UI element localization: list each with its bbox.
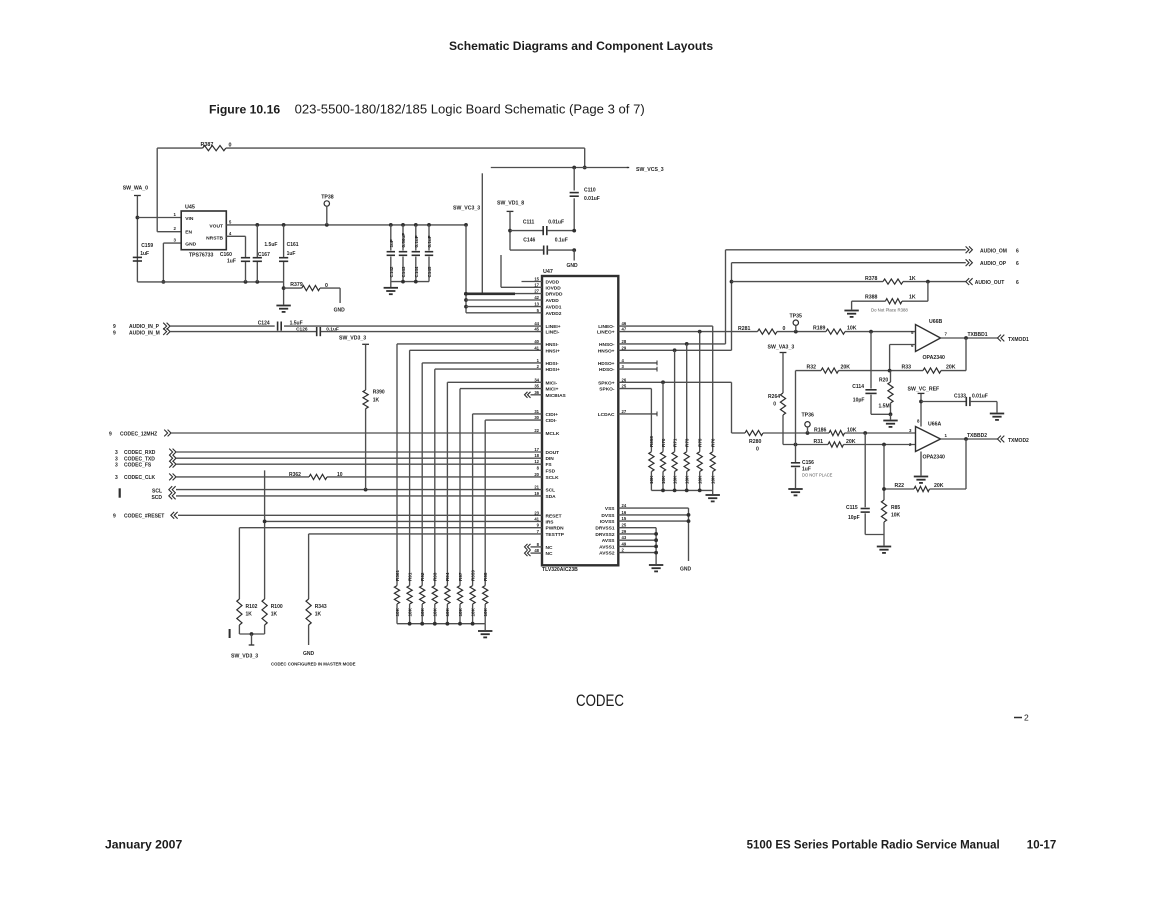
resistor R70 10K pulldown bbox=[660, 438, 665, 490]
svg-text:C146: C146 bbox=[523, 238, 535, 244]
test point TP38 bbox=[321, 195, 334, 225]
wire regulator ground rail bbox=[137, 280, 283, 284]
svg-text:22: 22 bbox=[534, 428, 539, 433]
ground below C156 bbox=[788, 489, 802, 495]
resistor R281 bbox=[738, 326, 786, 334]
svg-text:36: 36 bbox=[534, 390, 539, 395]
wire R358 net down bbox=[650, 389, 652, 452]
svg-text:0: 0 bbox=[756, 447, 759, 453]
wire R93 net to pin bbox=[435, 369, 542, 585]
svg-text:9: 9 bbox=[113, 514, 116, 520]
wire U66A inverting input line bbox=[783, 443, 916, 447]
svg-text:0: 0 bbox=[773, 402, 776, 408]
node SW_VA3_3 bbox=[768, 344, 795, 444]
svg-text:DO NOT PLACE: DO NOT PLACE bbox=[802, 473, 833, 478]
svg-text:0.1uF: 0.1uF bbox=[427, 235, 432, 247]
svg-text:AVDD: AVDD bbox=[546, 298, 560, 304]
resistor R32 bbox=[807, 365, 851, 374]
resistor R76 10K pulldown bbox=[710, 438, 715, 490]
svg-text:10K: 10K bbox=[483, 607, 488, 616]
svg-text:10K: 10K bbox=[661, 475, 666, 484]
svg-text:47: 47 bbox=[622, 327, 627, 332]
wire IOVDD bbox=[501, 255, 542, 287]
resistor R189 bbox=[813, 325, 857, 334]
wire TESTTP pin bbox=[309, 533, 542, 535]
svg-text:OPA2340: OPA2340 bbox=[923, 355, 946, 361]
svg-text:AUDIO_IN_M: AUDIO_IN_M bbox=[129, 330, 160, 336]
capacitor C156 (do not place) bbox=[791, 460, 833, 488]
svg-text:1.5uF: 1.5uF bbox=[290, 320, 303, 326]
svg-text:R20: R20 bbox=[879, 378, 888, 384]
svg-text:C142: C142 bbox=[389, 266, 394, 277]
net AUDIO_OP to page 6 bbox=[966, 259, 1019, 267]
resistor R85 bbox=[881, 445, 900, 535]
svg-text:NRSTB: NRSTB bbox=[206, 235, 223, 241]
capacitor C144 bbox=[412, 225, 420, 282]
svg-text:Schematic Diagrams and Compone: Schematic Diagrams and Component Layouts bbox=[449, 39, 713, 53]
svg-text:C133: C133 bbox=[954, 393, 966, 399]
svg-text:10K: 10K bbox=[395, 607, 400, 616]
svg-text:R102: R102 bbox=[246, 604, 258, 610]
page mark 2 bbox=[1014, 713, 1029, 723]
capacitor C114 bbox=[852, 332, 876, 415]
svg-text:TXBBD2: TXBBD2 bbox=[967, 433, 987, 439]
svg-text:GND: GND bbox=[185, 242, 196, 248]
svg-text:CODEC_FS: CODEC_FS bbox=[124, 462, 152, 468]
svg-text:DVDD: DVDD bbox=[546, 280, 560, 286]
resistor R264 bbox=[768, 393, 786, 415]
footer left bbox=[105, 838, 182, 852]
svg-text:20K: 20K bbox=[841, 365, 851, 371]
capacitor C126 bbox=[296, 327, 339, 337]
svg-text:AVSS: AVSS bbox=[602, 538, 616, 544]
wire LINEO+ to U66B input bbox=[618, 330, 915, 334]
svg-text:10K: 10K bbox=[458, 607, 463, 616]
svg-text:R33: R33 bbox=[902, 365, 912, 371]
resistor R359 10K pulldown bbox=[470, 570, 475, 624]
svg-text:SPKO+: SPKO+ bbox=[598, 380, 615, 386]
wire HNSO- up to AUDIO_OM bbox=[618, 250, 966, 346]
resistor R362 bbox=[289, 472, 343, 480]
CODEC section title bbox=[576, 692, 624, 710]
svg-text:R379: R379 bbox=[290, 282, 303, 288]
svg-text:RESET: RESET bbox=[546, 513, 562, 519]
svg-text:C144: C144 bbox=[414, 266, 419, 277]
svg-text:1uF: 1uF bbox=[140, 251, 149, 257]
svg-text:R94: R94 bbox=[445, 572, 450, 581]
wire R73 net down bbox=[686, 344, 688, 452]
svg-text:17: 17 bbox=[534, 282, 539, 287]
resistor R98 10K pulldown bbox=[483, 572, 488, 624]
wire PWRDN pin bbox=[239, 527, 542, 529]
svg-text:48: 48 bbox=[534, 548, 539, 553]
svg-text:AVSS2: AVSS2 bbox=[599, 551, 615, 557]
svg-text:R71: R71 bbox=[672, 438, 677, 447]
svg-text:1K: 1K bbox=[315, 612, 322, 618]
ground below C133 bbox=[990, 414, 1004, 420]
net CODEC_FS from page 3 bbox=[115, 461, 542, 469]
resistor R31 bbox=[814, 439, 856, 447]
resistor R93 10K pulldown bbox=[432, 572, 437, 624]
svg-text:Do Not Place R388: Do Not Place R388 bbox=[871, 308, 908, 313]
net CODEC_CLK from page 3 with R362 bbox=[115, 474, 542, 482]
resistor R358 10K pulldown bbox=[649, 436, 654, 491]
svg-text:AUDIO_OM: AUDIO_OM bbox=[980, 248, 1007, 254]
ground below C142 bbox=[384, 282, 398, 295]
footer right bbox=[747, 840, 1057, 852]
pin 2 EN bbox=[174, 226, 177, 231]
svg-text:9: 9 bbox=[109, 431, 112, 437]
svg-text:20K: 20K bbox=[846, 439, 856, 445]
resistor R361 10K pulldown bbox=[394, 570, 399, 624]
svg-text:1uF: 1uF bbox=[227, 259, 236, 265]
svg-text:45: 45 bbox=[534, 327, 539, 332]
svg-text:SW_VCS_3: SW_VCS_3 bbox=[636, 167, 664, 173]
wire R359 net to pin bbox=[473, 414, 542, 586]
net TXBBD2 output to TXMOD2 bbox=[941, 433, 1030, 444]
net CODEC_#RESET from page 9 bbox=[113, 512, 542, 520]
svg-text:SW_VC3_3: SW_VC3_3 bbox=[453, 206, 480, 212]
svg-text:GND: GND bbox=[680, 567, 692, 573]
wire R71 net down bbox=[674, 350, 676, 451]
resistor R97 10K pulldown bbox=[457, 572, 462, 624]
resistor R94 10K pulldown bbox=[445, 572, 450, 624]
resistor R280 bbox=[745, 430, 763, 452]
net AUDIO_OUT with R378 bbox=[732, 278, 1020, 286]
wire R32 tap down to C156 node bbox=[795, 371, 797, 462]
svg-text:SCD: SCD bbox=[151, 495, 162, 501]
svg-text:U66B: U66B bbox=[929, 319, 943, 325]
svg-text:AVDD1: AVDD1 bbox=[546, 305, 562, 311]
svg-text:SW_WA_0: SW_WA_0 bbox=[123, 186, 148, 192]
svg-text:CIDI-: CIDI- bbox=[546, 418, 558, 424]
wire VIN pin 1 bbox=[137, 212, 181, 218]
svg-text:AUDIO_OP: AUDIO_OP bbox=[980, 261, 1007, 267]
svg-text:31: 31 bbox=[534, 409, 539, 414]
svg-text:C160: C160 bbox=[220, 252, 232, 258]
svg-text:C111: C111 bbox=[523, 220, 535, 226]
svg-text:SDA: SDA bbox=[546, 494, 557, 500]
wire C114/R20 ground rail bbox=[871, 412, 892, 419]
wire R97 net to pin bbox=[460, 389, 542, 586]
net AUDIO_OM to page 6 bbox=[966, 246, 1019, 254]
wire SPKO+ down to R280 line bbox=[618, 380, 731, 433]
svg-text:VSS: VSS bbox=[605, 506, 615, 512]
svg-text:R186: R186 bbox=[814, 427, 827, 433]
svg-text:26: 26 bbox=[622, 377, 627, 382]
capacitor C146 bbox=[510, 238, 576, 255]
wire VSS/DVSS/IOVSS to GND bbox=[618, 508, 690, 561]
svg-text:AVDD2: AVDD2 bbox=[546, 311, 562, 317]
svg-text:EN: EN bbox=[185, 229, 192, 235]
svg-text:1K: 1K bbox=[909, 294, 916, 300]
svg-text:46: 46 bbox=[622, 321, 627, 326]
svg-text:GND: GND bbox=[334, 308, 346, 314]
svg-text:10K: 10K bbox=[891, 513, 901, 519]
svg-text:GND: GND bbox=[567, 263, 579, 269]
svg-text:R93: R93 bbox=[433, 572, 438, 581]
wire cap bank ground rail bbox=[391, 280, 429, 284]
ground below left pulldown bank bbox=[478, 624, 492, 638]
svg-text:6: 6 bbox=[1016, 280, 1019, 286]
svg-text:20: 20 bbox=[534, 472, 539, 477]
wire FSD/IRS to R100 bbox=[263, 470, 267, 599]
svg-text:41: 41 bbox=[534, 345, 539, 350]
wire HNSO+ up to AUDIO_OP / AUDIO_OUT bbox=[618, 263, 966, 352]
svg-text:10K: 10K bbox=[698, 475, 703, 484]
svg-text:PWRDN: PWRDN bbox=[546, 526, 565, 532]
wire C115/R85 ground rail bbox=[865, 535, 884, 546]
svg-text:TPS76733: TPS76733 bbox=[189, 253, 214, 259]
wire R94 net to pin bbox=[447, 382, 542, 585]
svg-text:HDSI+: HDSI+ bbox=[546, 367, 560, 373]
resistor R378 bbox=[865, 276, 916, 284]
svg-text:January 2007: January 2007 bbox=[105, 838, 182, 852]
svg-text:R91: R91 bbox=[407, 572, 412, 581]
resistor R387 bbox=[201, 142, 232, 151]
wire HDSO- stub bbox=[618, 367, 657, 372]
net AUDIO_IN_P from page 9 bbox=[113, 323, 542, 330]
svg-text:R189: R189 bbox=[813, 325, 826, 331]
svg-text:IOVSS: IOVSS bbox=[600, 519, 615, 525]
wire SW_VC3_3 vertical to DRVDD bbox=[481, 173, 483, 293]
svg-text:25: 25 bbox=[622, 523, 627, 528]
wire DVDD stub bbox=[522, 281, 543, 283]
svg-text:TXMOD2: TXMOD2 bbox=[1008, 438, 1029, 444]
wire GND pin 3 bbox=[162, 238, 182, 284]
wire NRSTB to C160 bbox=[226, 231, 245, 282]
svg-text:MCLK: MCLK bbox=[546, 431, 560, 437]
svg-text:TLV320AIC23B: TLV320AIC23B bbox=[542, 567, 578, 573]
svg-text:30: 30 bbox=[534, 415, 539, 420]
svg-text:HDSO-: HDSO- bbox=[599, 367, 615, 373]
svg-text:R76: R76 bbox=[711, 438, 716, 447]
svg-text:44: 44 bbox=[534, 321, 539, 326]
wire TESTTP to R343 bbox=[308, 534, 310, 599]
svg-text:DRVSS1: DRVSS1 bbox=[595, 526, 614, 532]
wire R91 net to pin bbox=[410, 350, 542, 585]
wire VOUT rail SW_VC3_3 bbox=[226, 220, 468, 227]
svg-text:10K: 10K bbox=[445, 607, 450, 616]
svg-text:0.1uF: 0.1uF bbox=[326, 327, 339, 333]
node SW_VD3_3 below R102/R100 bbox=[230, 625, 265, 660]
svg-text:HNSO-: HNSO- bbox=[599, 342, 615, 348]
svg-text:C114: C114 bbox=[852, 384, 864, 390]
capacitor C133 bbox=[921, 393, 997, 412]
svg-text:15: 15 bbox=[534, 277, 539, 282]
svg-text:023-5500-180/182/185 Logic Boa: 023-5500-180/182/185 Logic Board Schemat… bbox=[295, 102, 645, 117]
resistor R71 10K pulldown bbox=[672, 438, 677, 490]
svg-text:49: 49 bbox=[622, 541, 627, 546]
net CODEC_TXD from page 3 bbox=[115, 455, 542, 463]
net SCL bbox=[152, 486, 542, 494]
svg-text:2: 2 bbox=[1024, 713, 1029, 723]
GND label below R379 bbox=[334, 308, 346, 314]
svg-text:23: 23 bbox=[534, 510, 539, 515]
page header title bbox=[449, 39, 713, 53]
svg-text:Figure 10.16: Figure 10.16 bbox=[209, 103, 280, 117]
svg-text:CODEC CONFIGURED IN MASTER MOD: CODEC CONFIGURED IN MASTER MODE bbox=[271, 662, 356, 667]
net AUDIO_IN_M from page 9 bbox=[113, 328, 542, 336]
svg-text:SW_VA3_3: SW_VA3_3 bbox=[768, 344, 795, 350]
svg-text:R32: R32 bbox=[807, 365, 817, 371]
svg-text:C156: C156 bbox=[802, 460, 814, 466]
wire U66B feedback bbox=[796, 338, 967, 373]
capacitor C110 bbox=[570, 168, 600, 231]
svg-text:0.01uF: 0.01uF bbox=[584, 196, 600, 202]
svg-text:29: 29 bbox=[622, 529, 627, 534]
GND label below R343 bbox=[303, 625, 315, 657]
wire R361 net to pin bbox=[397, 344, 542, 586]
wire right pulldown ground rail bbox=[651, 489, 712, 493]
node SW_WA_0 bbox=[123, 186, 148, 282]
svg-text:0: 0 bbox=[229, 143, 232, 149]
svg-text:HNSO+: HNSO+ bbox=[598, 348, 615, 354]
svg-text:10K: 10K bbox=[847, 325, 857, 331]
op-amp U66A OPA2340 bbox=[909, 419, 947, 461]
svg-text:C126: C126 bbox=[296, 327, 308, 333]
svg-text:LINEO+: LINEO+ bbox=[597, 330, 615, 336]
svg-text:AUDIO_IN_P: AUDIO_IN_P bbox=[129, 324, 160, 330]
svg-text:CODEC_RXD: CODEC_RXD bbox=[124, 450, 156, 456]
svg-text:HNSI+: HNSI+ bbox=[546, 348, 560, 354]
svg-text:10K: 10K bbox=[649, 475, 654, 484]
svg-text:U47: U47 bbox=[543, 269, 553, 275]
svg-text:29: 29 bbox=[622, 345, 627, 350]
svg-text:SW_VD3_3: SW_VD3_3 bbox=[231, 654, 258, 660]
svg-text:TP36: TP36 bbox=[802, 413, 815, 419]
svg-text:1.5uF: 1.5uF bbox=[264, 242, 277, 248]
svg-text:VOUT: VOUT bbox=[209, 224, 223, 230]
svg-text:TP38: TP38 bbox=[321, 195, 334, 201]
svg-text:SPKO-: SPKO- bbox=[599, 387, 615, 393]
svg-text:21: 21 bbox=[534, 485, 539, 490]
svg-text:43: 43 bbox=[622, 535, 627, 540]
svg-text:10pF: 10pF bbox=[853, 398, 865, 404]
svg-text:MICI+: MICI+ bbox=[546, 387, 559, 393]
svg-text:R343: R343 bbox=[315, 604, 327, 610]
svg-text:0: 0 bbox=[325, 283, 328, 289]
svg-text:SW_VD1_8: SW_VD1_8 bbox=[497, 201, 524, 207]
svg-text:10pF: 10pF bbox=[848, 515, 860, 521]
svg-text:10K: 10K bbox=[847, 427, 857, 433]
ground below C161 bbox=[276, 306, 290, 312]
svg-text:R281: R281 bbox=[738, 326, 751, 332]
wire HDSO+ stub bbox=[618, 361, 657, 366]
resistor R73 10K pulldown bbox=[684, 438, 689, 490]
MICBIAS stub arrow bbox=[525, 392, 543, 398]
svg-text:28: 28 bbox=[622, 339, 627, 344]
svg-text:HNSI-: HNSI- bbox=[546, 342, 559, 348]
test point TP35 bbox=[790, 314, 803, 332]
svg-text:10K: 10K bbox=[470, 607, 475, 616]
svg-text:GND: GND bbox=[303, 651, 315, 657]
svg-text:C145: C145 bbox=[427, 266, 432, 277]
svg-text:13: 13 bbox=[534, 302, 539, 307]
svg-text:10K: 10K bbox=[685, 475, 690, 484]
ground below R85 bbox=[877, 547, 891, 553]
svg-text:DIN: DIN bbox=[546, 456, 555, 462]
svg-text:CODEC_#RESET: CODEC_#RESET bbox=[124, 514, 164, 520]
svg-text:C143: C143 bbox=[401, 266, 406, 277]
svg-text:3: 3 bbox=[115, 462, 118, 468]
svg-text:10K: 10K bbox=[672, 475, 677, 484]
svg-text:6: 6 bbox=[1016, 261, 1019, 267]
svg-text:0.01uF: 0.01uF bbox=[972, 393, 988, 399]
svg-text:DVSS: DVSS bbox=[601, 513, 615, 519]
svg-text:3: 3 bbox=[115, 475, 118, 481]
resistor R20 bbox=[879, 371, 894, 415]
figure caption bbox=[209, 102, 645, 117]
svg-text:AVSS1: AVSS1 bbox=[599, 544, 615, 550]
net TXBBD1 output to TXMOD1 bbox=[941, 332, 1030, 343]
svg-text:R85: R85 bbox=[891, 505, 900, 511]
test point TP36 bbox=[802, 413, 815, 434]
ground below R388 bbox=[844, 311, 858, 317]
svg-text:16: 16 bbox=[622, 510, 627, 515]
svg-text:5100 ES Series Portable Radio: 5100 ES Series Portable Radio Service Ma… bbox=[747, 840, 1000, 852]
svg-text:34: 34 bbox=[534, 377, 539, 382]
wire R75 net down bbox=[699, 332, 701, 452]
svg-text:R22: R22 bbox=[894, 483, 904, 489]
svg-text:12: 12 bbox=[534, 459, 539, 464]
resistor R102 bbox=[237, 599, 258, 625]
svg-text:HDSI-: HDSI- bbox=[546, 361, 559, 367]
svg-text:10K: 10K bbox=[420, 607, 425, 616]
svg-text:CODEC_CLK: CODEC_CLK bbox=[124, 475, 156, 481]
svg-text:R73: R73 bbox=[685, 438, 690, 447]
svg-text:TESTTP: TESTTP bbox=[546, 532, 565, 538]
ground below right pulldown bank bbox=[706, 490, 720, 501]
svg-text:1K: 1K bbox=[246, 612, 253, 618]
svg-text:9: 9 bbox=[113, 330, 116, 336]
svg-text:40: 40 bbox=[534, 339, 539, 344]
resistor R379 bbox=[284, 282, 341, 303]
codec IC U47 TLV320AIC23B bbox=[542, 269, 618, 573]
capacitor C124 bbox=[258, 320, 303, 330]
svg-text:DRVSS2: DRVSS2 bbox=[595, 532, 614, 538]
ground below U66A bbox=[914, 452, 928, 483]
svg-text:LINEI-: LINEI- bbox=[546, 330, 560, 336]
svg-text:25: 25 bbox=[622, 384, 627, 389]
svg-text:TXMOD1: TXMOD1 bbox=[1008, 337, 1029, 343]
svg-text:10: 10 bbox=[337, 472, 343, 478]
svg-text:1.5M: 1.5M bbox=[879, 404, 890, 410]
svg-text:MICI-: MICI- bbox=[546, 380, 558, 386]
wire U66A feedback R22 bbox=[884, 439, 966, 489]
capacitor C161 bbox=[279, 225, 299, 305]
svg-text:R361: R361 bbox=[395, 570, 400, 581]
capacitor C111 bbox=[510, 220, 576, 236]
svg-text:TXBBD1: TXBBD1 bbox=[968, 332, 988, 338]
svg-text:C159: C159 bbox=[141, 243, 153, 249]
wire SPKO+ line through R280/R186 to U66A input bbox=[732, 431, 916, 435]
svg-text:R359: R359 bbox=[470, 570, 475, 581]
svg-text:CIDI+: CIDI+ bbox=[546, 412, 559, 418]
svg-text:9: 9 bbox=[113, 324, 116, 330]
svg-text:CODEC_12MHZ: CODEC_12MHZ bbox=[120, 431, 157, 437]
svg-text:15: 15 bbox=[622, 516, 627, 521]
svg-text:R100: R100 bbox=[271, 604, 283, 610]
svg-text:C124: C124 bbox=[258, 320, 270, 326]
svg-text:0.56uF: 0.56uF bbox=[401, 233, 406, 248]
svg-text:R387: R387 bbox=[201, 142, 214, 148]
svg-text:IRS: IRS bbox=[546, 519, 555, 525]
svg-text:FSD: FSD bbox=[546, 468, 556, 474]
svg-text:U45: U45 bbox=[185, 205, 195, 211]
svg-text:1K: 1K bbox=[909, 276, 916, 282]
GND label below VSS group bbox=[680, 567, 692, 573]
